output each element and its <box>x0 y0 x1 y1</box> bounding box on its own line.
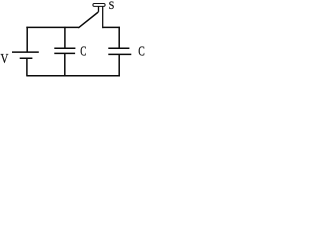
wire middle capacitor bottom stem <box>64 53 66 75</box>
battery V negative plate <box>20 57 33 59</box>
battery V positive plate <box>12 51 39 53</box>
wire top-left segment (battery top to switch lever) <box>26 26 78 28</box>
wire battery bottom stem <box>26 58 28 75</box>
capacitor C (right) top plate <box>108 47 129 49</box>
switch S contact bar (capsule) <box>93 4 105 7</box>
wire bottom bus <box>26 75 120 77</box>
svg-text:C: C <box>80 44 86 59</box>
capacitor C (middle) bottom plate <box>54 52 75 54</box>
wire right capacitor bottom stem <box>118 55 120 76</box>
wire top-right segment (switch to right capacitor) <box>103 26 120 28</box>
wire middle capacitor top stem <box>64 27 66 48</box>
switch S right terminal wire <box>102 6 104 28</box>
switch S lever arm <box>78 12 98 28</box>
wire right capacitor top stem <box>118 27 120 49</box>
svg-text:V: V <box>1 52 9 67</box>
switch S contact stem <box>98 6 100 12</box>
svg-text:S: S <box>109 0 115 12</box>
svg-text:C: C <box>138 44 145 59</box>
wire battery top stem <box>26 27 28 52</box>
capacitor C (middle) top plate <box>54 47 75 49</box>
capacitor C (right) bottom plate <box>108 53 131 55</box>
